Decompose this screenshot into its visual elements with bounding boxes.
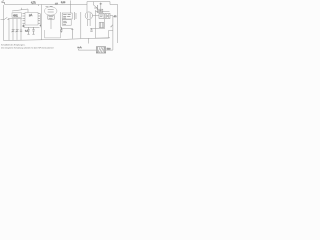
node junction blob <box>22 25 24 28</box>
wire comb 1 <box>8 19 10 41</box>
IC U1 box <box>25 13 38 26</box>
wire top right corner <box>110 2 118 5</box>
pin U1 left pins <box>23 14 26 24</box>
svg-text:4N1: 4N1 <box>13 13 18 17</box>
wire plus drop <box>100 5 102 11</box>
transformer T2 windings <box>88 13 91 18</box>
transformer T1 slugs <box>48 10 54 12</box>
wire U2 left vertical <box>60 12 62 28</box>
transformer T1 top ticks <box>46 5 53 7</box>
text U2B rows <box>63 21 67 24</box>
wire mid vertical <box>41 5 43 40</box>
wire comb 2 <box>12 19 14 41</box>
wire circle to box <box>93 15 100 17</box>
wire x104.7 vertical <box>104 19 106 29</box>
wire crystal right lead <box>106 49 113 51</box>
transformer T1 base box <box>48 15 54 19</box>
switch S1 <box>4 17 9 19</box>
text U2A rows <box>63 15 71 18</box>
filter box FL1 <box>12 13 22 17</box>
wire right border <box>117 5 119 44</box>
output box A <box>99 13 104 18</box>
wire top bus <box>5 4 87 6</box>
connector J1 <box>75 12 77 20</box>
wire drop x70 <box>69 1 71 14</box>
svg-text:4,7k: 4,7k <box>31 2 36 5</box>
capacitor C5 electrolytic <box>60 27 62 33</box>
diode D1 <box>94 5 98 9</box>
shield box <box>45 30 61 38</box>
svg-text:5,08: 5,08 <box>61 2 66 4</box>
capacitor C4 <box>20 30 22 31</box>
battery plus mark <box>100 3 103 6</box>
antenna mark <box>2 1 5 5</box>
wire T2 leads down <box>88 19 91 26</box>
wire x112.9 vertical <box>112 16 114 50</box>
wire right link <box>110 15 113 17</box>
lower right box <box>96 30 113 38</box>
svg-text:μA: μA <box>29 13 32 17</box>
crystal X1 hatch <box>98 47 104 52</box>
svg-text:Schaltbild des Empfangers.: Schaltbild des Empfangers. <box>1 44 26 47</box>
coil L2 <box>99 22 104 27</box>
wire left border <box>3 5 5 41</box>
trimmer box VR1 <box>97 9 103 12</box>
wire comb 4 <box>20 19 22 40</box>
wire x88 step <box>88 38 90 43</box>
transformer T1 can <box>44 7 57 15</box>
wire T1 stem <box>50 19 52 29</box>
box A marks <box>100 15 103 17</box>
capacitor C9 <box>32 27 34 34</box>
IC U2 block B <box>62 20 71 26</box>
svg-text:m.A.: m.A. <box>78 46 83 49</box>
wire comb feed <box>8 18 22 20</box>
wire x40 drop <box>39 14 41 28</box>
node dot <box>40 25 41 26</box>
wire U2 bottom link <box>61 27 73 29</box>
battery box B1 <box>105 13 110 18</box>
wire crystal left lead <box>78 49 96 50</box>
crystal X1 body <box>96 47 105 53</box>
wire mid right bus <box>96 11 110 13</box>
wire bottom ground rail <box>4 38 111 41</box>
arrow tap <box>111 25 113 27</box>
battery B1 bars <box>106 14 109 18</box>
wire top right loop <box>87 2 110 13</box>
tick below bus <box>38 5 40 7</box>
wire input lead <box>1 19 5 21</box>
wire x72 lower vertical <box>71 28 73 38</box>
text T1 label <box>49 17 53 18</box>
wire sloped feed <box>12 8 28 13</box>
IC U2 block A <box>62 13 72 19</box>
trimmer C3 <box>16 29 19 32</box>
svg-text:4Ω: 4Ω <box>114 16 117 18</box>
trimmer C2 <box>12 29 15 32</box>
wire x95.5 vertical <box>95 10 97 31</box>
capacitor C8 <box>27 27 29 34</box>
wire x80.8 vertical <box>80 12 82 38</box>
wire comb 3 <box>16 19 18 41</box>
crystal X1 end caps <box>98 47 105 53</box>
wire U1 bottom bus <box>24 26 40 28</box>
wire right mid bus <box>90 27 105 29</box>
capacitor C6 <box>90 28 92 31</box>
transformer T2 circle <box>85 12 92 19</box>
VR1 mark <box>98 10 102 12</box>
pin U1 right pins <box>38 14 40 24</box>
svg-text:Die integrierte Schaltung arbe: Die integrierte Schaltung arbeitet mit d… <box>1 46 54 49</box>
